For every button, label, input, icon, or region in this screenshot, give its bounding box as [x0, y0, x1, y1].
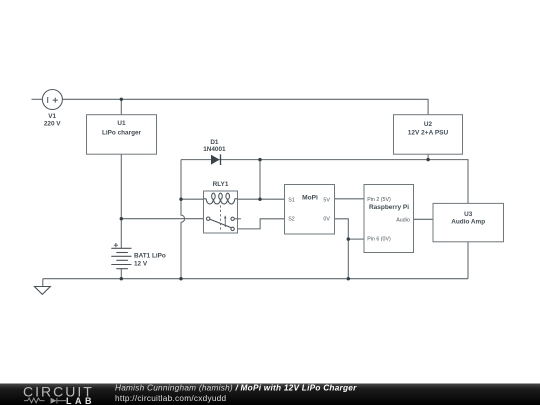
svg-text:V1: V1: [48, 113, 56, 120]
svg-text:Hamish Cunningham (hamish) / M: Hamish Cunningham (hamish) / MoPi with 1…: [115, 383, 357, 392]
svg-text:Raspberry Pi: Raspberry Pi: [369, 204, 409, 211]
svg-text:LiPo charger: LiPo charger: [102, 130, 142, 137]
svg-text:0V: 0V: [323, 217, 330, 223]
svg-text:S2: S2: [288, 217, 295, 223]
svg-text:12 V: 12 V: [134, 261, 148, 268]
svg-text:Pin 6 (0V): Pin 6 (0V): [367, 237, 391, 243]
svg-text:5V: 5V: [323, 197, 330, 203]
svg-text:U2: U2: [424, 121, 433, 128]
svg-text:U3: U3: [464, 211, 473, 218]
svg-text:U1: U1: [117, 120, 126, 127]
svg-text:1N4001: 1N4001: [203, 146, 226, 153]
svg-text:http://circuitlab.com/cxdyudd: http://circuitlab.com/cxdyudd: [115, 394, 226, 403]
svg-text:RLY1: RLY1: [213, 181, 229, 188]
svg-text:BAT1 LiPo: BAT1 LiPo: [134, 253, 166, 260]
svg-text:LAB: LAB: [66, 396, 95, 405]
svg-text:Audio Amp: Audio Amp: [451, 218, 485, 225]
svg-text:S1: S1: [288, 197, 295, 203]
svg-text:Pin 2 (5V): Pin 2 (5V): [367, 197, 391, 203]
svg-text:MoPi: MoPi: [302, 194, 318, 201]
svg-text:12V 2+A PSU: 12V 2+A PSU: [408, 130, 449, 137]
svg-text:D1: D1: [210, 139, 219, 146]
svg-text:Audio: Audio: [396, 217, 410, 223]
svg-text:220 V: 220 V: [44, 121, 61, 128]
